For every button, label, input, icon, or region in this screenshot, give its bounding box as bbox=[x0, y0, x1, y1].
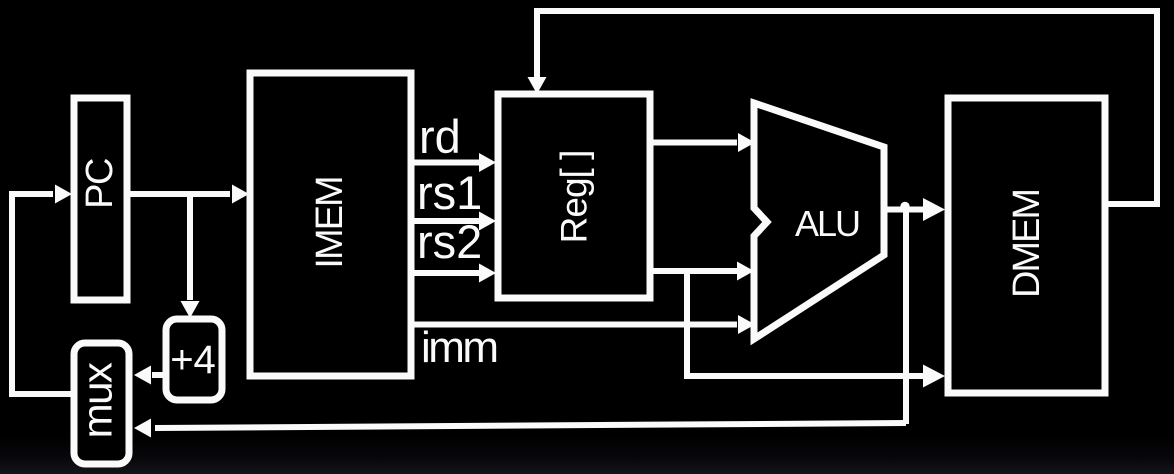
svg-text:Reg[ ]: Reg[ ] bbox=[554, 151, 595, 244]
svg-text:mux: mux bbox=[74, 362, 121, 438]
svg-text:PC: PC bbox=[79, 159, 121, 209]
svg-text:+4: +4 bbox=[170, 338, 216, 382]
svg-text:ALU: ALU bbox=[795, 203, 859, 244]
svg-text:IMEM: IMEM bbox=[309, 177, 351, 268]
svg-text:rs1: rs1 bbox=[417, 166, 482, 219]
svg-text:DMEM: DMEM bbox=[1006, 190, 1048, 298]
svg-text:rs2: rs2 bbox=[417, 215, 482, 268]
svg-text:imm: imm bbox=[421, 323, 497, 372]
svg-text:rd: rd bbox=[419, 110, 461, 163]
